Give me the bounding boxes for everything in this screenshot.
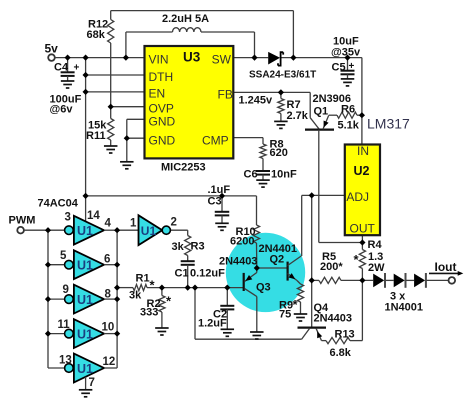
svg-text:9: 9	[63, 284, 69, 296]
svg-text:CMP: CMP	[202, 134, 229, 148]
svg-text:U1: U1	[77, 259, 93, 273]
svg-text:R6: R6	[341, 104, 355, 116]
svg-text:R11: R11	[86, 130, 106, 142]
svg-text:SSA24-E3/61T: SSA24-E3/61T	[249, 70, 316, 81]
svg-text:Iout: Iout	[435, 260, 457, 274]
svg-text:R13: R13	[335, 329, 355, 341]
svg-text:U1: U1	[77, 224, 93, 238]
svg-text:5v: 5v	[45, 42, 59, 56]
svg-text:3k: 3k	[172, 241, 185, 253]
svg-text:620: 620	[270, 147, 288, 159]
svg-text:10: 10	[102, 322, 115, 334]
svg-text:74AC04: 74AC04	[38, 198, 79, 210]
svg-text:U1: U1	[77, 327, 93, 341]
svg-text:1: 1	[130, 218, 137, 230]
svg-text:DTH: DTH	[149, 70, 174, 84]
svg-text:1.245v: 1.245v	[239, 95, 274, 107]
svg-text:C6: C6	[244, 169, 258, 181]
svg-text:4: 4	[105, 218, 112, 230]
svg-text:5: 5	[60, 250, 67, 262]
svg-text:@35v: @35v	[331, 47, 361, 59]
svg-text:R4: R4	[368, 239, 383, 251]
svg-text:OVP: OVP	[149, 102, 174, 116]
svg-text:U1: U1	[77, 293, 93, 307]
svg-text:1N4001: 1N4001	[385, 302, 424, 314]
svg-text:+: +	[74, 63, 80, 74]
svg-text:PWM: PWM	[9, 215, 36, 227]
svg-text:Q1: Q1	[314, 106, 329, 118]
svg-text:68k: 68k	[87, 29, 106, 41]
svg-text:R1: R1	[136, 273, 150, 285]
svg-text:C3: C3	[208, 196, 222, 208]
svg-text:C5: C5	[332, 62, 346, 74]
svg-text:C1: C1	[175, 268, 189, 280]
svg-text:U1: U1	[141, 224, 157, 238]
svg-text:2.7k: 2.7k	[287, 110, 309, 122]
svg-text:+: +	[349, 61, 355, 72]
svg-text:GND: GND	[149, 115, 176, 129]
svg-text:SW: SW	[212, 53, 232, 67]
svg-text:U2: U2	[354, 164, 370, 178]
svg-text:5.1k: 5.1k	[338, 120, 360, 132]
svg-text:Q2: Q2	[270, 254, 285, 266]
svg-text:Q3: Q3	[256, 282, 271, 294]
svg-text:U3: U3	[183, 49, 201, 64]
svg-text:3: 3	[65, 212, 71, 224]
svg-text:3k: 3k	[129, 290, 142, 302]
svg-text:11: 11	[58, 319, 71, 331]
svg-text:U1: U1	[77, 362, 93, 376]
svg-text:14: 14	[87, 210, 100, 222]
svg-text:2: 2	[171, 217, 177, 229]
svg-text:R3: R3	[191, 241, 205, 253]
svg-text:2N4403: 2N4403	[219, 256, 258, 268]
svg-text:C4: C4	[54, 62, 69, 74]
svg-text:13: 13	[59, 354, 72, 366]
svg-text:75: 75	[279, 309, 291, 321]
svg-text:6: 6	[104, 253, 110, 265]
svg-text:VIN: VIN	[149, 53, 169, 67]
svg-text:FB: FB	[218, 88, 233, 102]
svg-text:333: 333	[140, 307, 158, 319]
svg-text:OUT: OUT	[350, 221, 376, 235]
svg-text:12: 12	[103, 356, 116, 368]
svg-text:2N4403: 2N4403	[314, 313, 353, 325]
svg-text:7: 7	[89, 377, 95, 389]
svg-text:1.2uF: 1.2uF	[198, 318, 227, 330]
svg-text:10nF: 10nF	[271, 169, 297, 181]
svg-text:6.8k: 6.8k	[330, 347, 352, 359]
svg-text:0.12uF: 0.12uF	[190, 268, 225, 280]
svg-text:IN: IN	[357, 144, 369, 158]
svg-text:200*: 200*	[320, 261, 343, 273]
svg-text:.1uF: .1uF	[208, 184, 231, 196]
svg-text:2.2uH 5A: 2.2uH 5A	[162, 13, 209, 25]
svg-text:@6v: @6v	[50, 104, 74, 116]
svg-text:GND: GND	[149, 134, 176, 148]
svg-text:MIC2253: MIC2253	[161, 162, 206, 174]
svg-text:LM317: LM317	[367, 116, 410, 132]
svg-text:6200: 6200	[230, 236, 254, 248]
svg-text:2W: 2W	[368, 262, 385, 274]
svg-text:EN: EN	[149, 87, 166, 101]
svg-text:ADJ: ADJ	[346, 190, 369, 204]
svg-text:8: 8	[105, 288, 112, 300]
